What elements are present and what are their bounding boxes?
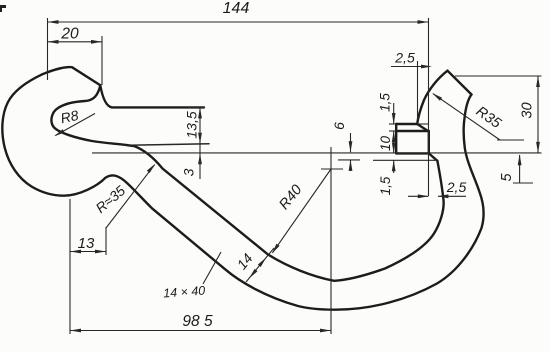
dimension 3 text [181,168,197,176]
svg-text:14 × 40: 14 × 40 [163,284,206,301]
part outline: shoulder top edge [396,123,429,125]
svg-text:2,5: 2,5 [394,50,415,66]
R8 leader line [54,114,95,137]
dimension 144 extension line left [47,18,49,80]
part outline: right limb left edge [417,71,447,124]
R40 center vertical line [330,147,332,334]
scan artifact top-left [0,5,6,12]
svg-text:5: 5 [499,173,515,182]
part outline: left end tip with angled cut face [43,67,101,85]
dimension 10 text [378,136,393,152]
extension line x=70 [69,199,71,334]
R40 leader line [272,169,331,254]
part outline: outer edge (left hook arc, lower wave, diagonal lower edge, loop outer arc, right limb right edge) [2,74,483,310]
R40 text [276,182,305,213]
svg-text:1,5: 1,5 [378,93,393,112]
dimension 1.5 bottom text [378,176,393,195]
part outline: right end angled cut face [448,71,472,95]
part outline: shoulder bottom edge [396,152,429,154]
dimension 13.5 line [198,107,202,143]
dimension 5 text [499,173,515,182]
svg-text:13: 13 [78,235,95,252]
svg-text:144: 144 [223,0,250,17]
R35 text [473,104,505,133]
dimension 14 line [246,248,274,282]
dimension 2.5 bottom text [446,179,467,195]
part outline: limb edge jog lower [429,153,438,160]
dimension 20 text [60,26,79,43]
dimension 1.5 top line [392,103,396,124]
dimension 5 line [518,154,522,183]
dimension 30 text [520,102,536,118]
svg-text:30: 30 [520,102,536,118]
svg-text:14: 14 [233,250,255,272]
part outline: inner edge (loop inner arc, diagonal upper edge, strip bottom edge, R8 curl) [51,85,443,280]
dimension 13.5 text [184,111,200,138]
R=35 leader line [106,164,156,229]
dimension 14 text [233,250,255,272]
dimension 2.5 bottom line left [408,194,429,198]
dimension 2.5 top extension line [417,61,419,120]
R8 text [59,107,80,126]
dimension 30 line [536,76,540,153]
dimension 1.5 bottom line [392,160,396,173]
dimension 13 text [78,235,95,252]
dimension 1.5 top ext stubs [389,124,397,131]
svg-text:R35: R35 [473,104,505,133]
part outline: shoulder left edge [395,124,397,153]
part outline: limb edge vertical [428,132,430,154]
dimension 144 line [48,20,429,24]
reference line y=152.9 [92,152,542,154]
label 14x40 leader [203,252,221,284]
R35 leader shelf [497,139,524,141]
R=35 vertical extension [105,227,107,255]
dimension 2.5 top text [394,50,415,66]
dimension 2.5 top line with arrow [391,65,432,69]
svg-text:2,5: 2,5 [446,179,467,195]
part outline: limb edge jog upper [417,124,429,132]
svg-text:13,5: 13,5 [184,111,200,138]
R40 center mark horizontal [321,168,343,170]
dimension 20 extension line right [101,36,103,85]
svg-text:R≈35: R≈35 [92,182,128,216]
dimension 1.5 top text [378,93,393,112]
dimension 98.5 line [70,329,331,333]
dimension 3 line and arrow [198,144,202,179]
reference line y=160.3 [338,159,437,161]
dimension 2.5 bottom line right [437,194,466,198]
svg-text:6: 6 [331,122,347,130]
part outline: strip bottom edge extension [128,144,209,146]
extension line x=428.5 (144 right / step) [428,18,430,196]
dimension 13.5 extension top [188,106,205,108]
R=35 text [92,182,128,216]
dimension 6 line lower [349,160,353,171]
dimension 144 text [223,0,250,17]
dimension 10 line [392,131,396,153]
svg-text:98 5: 98 5 [182,313,213,330]
svg-text:3: 3 [181,168,197,176]
dimension 5 shelf line [513,182,533,184]
dimension 6 line upper [349,133,353,152]
R35 leader line [432,93,500,140]
dimension 6 text [331,122,347,130]
part outline: strip top edge [100,85,204,107]
svg-text:R40: R40 [276,182,305,213]
dimension 13 line [70,250,106,254]
svg-text:1,5: 1,5 [378,176,393,195]
dimension 98.5 text [182,313,213,330]
dimension 20 line [48,40,103,44]
dimension 30 extension top [455,75,542,77]
label 14x40 text [163,284,206,301]
part outline: shoulder chamfer line [396,130,429,132]
svg-text:20: 20 [60,26,79,43]
svg-text:10: 10 [378,136,393,152]
